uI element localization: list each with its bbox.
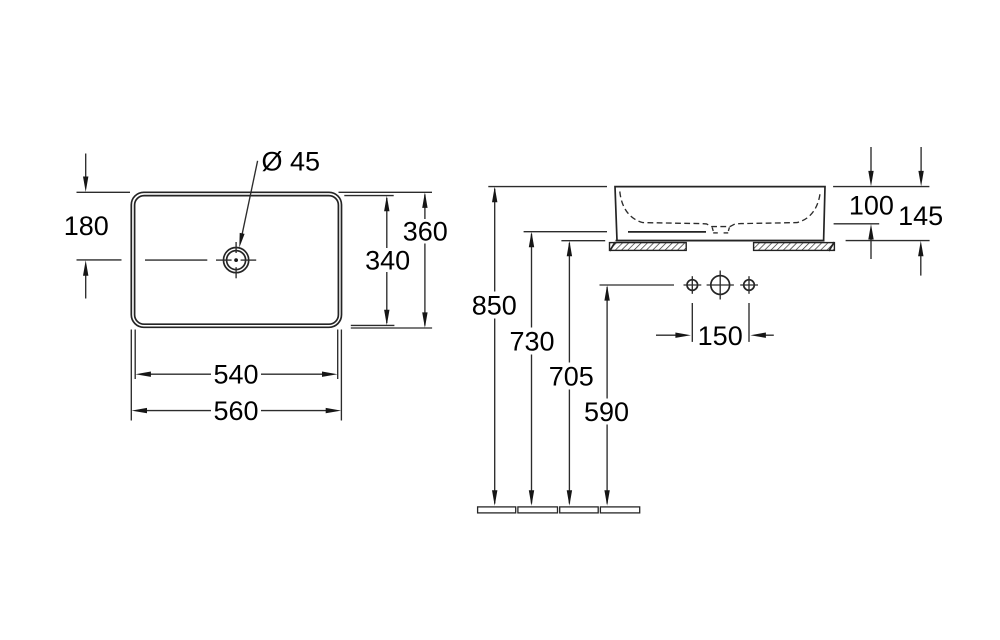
svg-text:540: 540 [213,360,258,390]
svg-text:590: 590 [584,397,629,427]
svg-text:360: 360 [403,216,448,246]
svg-text:560: 560 [213,396,258,426]
svg-text:145: 145 [898,201,943,231]
svg-text:340: 340 [365,245,410,275]
svg-text:100: 100 [849,190,894,220]
svg-text:730: 730 [509,326,554,356]
svg-text:150: 150 [698,321,743,351]
svg-text:705: 705 [549,362,594,392]
svg-text:Ø 45: Ø 45 [262,146,321,176]
svg-text:850: 850 [472,291,517,321]
svg-text:180: 180 [64,211,109,241]
